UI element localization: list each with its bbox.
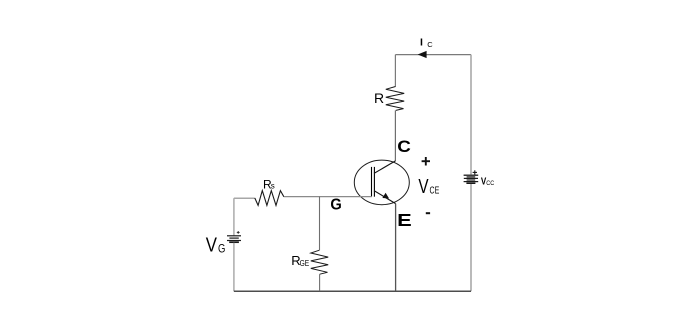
svg-text:I: I: [420, 37, 423, 49]
label + of VG: [237, 231, 240, 234]
transistor Q1 IGBT body circle: [354, 160, 409, 205]
svg-text:CE: CE: [430, 185, 440, 196]
svg-text:s: s: [271, 181, 275, 190]
svg-text:C: C: [427, 40, 433, 49]
wire collector lower: [394, 110, 396, 161]
svg-text:R: R: [374, 90, 384, 106]
label + of VCE: [422, 157, 430, 166]
svg-text:G: G: [330, 196, 341, 213]
wire top horizontal: [395, 54, 471, 56]
wire RGE branch lower: [319, 274, 321, 291]
wire left rail upper: [233, 198, 235, 235]
svg-text:G: G: [218, 244, 225, 256]
resistor R: [386, 87, 404, 111]
svg-text:V: V: [418, 176, 429, 198]
wire emitter vertical: [395, 204, 397, 292]
transistor Q1 emitter diagonal: [374, 191, 396, 204]
wire bottom rail: [234, 290, 471, 292]
transistor Q1 gate bar left: [371, 167, 373, 197]
wire gate left segment: [234, 197, 255, 199]
label - of VCE: [426, 212, 430, 214]
svg-text:CC: CC: [486, 180, 494, 187]
svg-text:GE: GE: [300, 259, 310, 268]
battery VG: [227, 236, 241, 242]
current arrow Ic: [418, 51, 427, 58]
wire right rail lower: [470, 184, 472, 291]
transistor Q1 emitter arrow: [382, 193, 389, 199]
label + of Vcc: [473, 170, 477, 174]
wire gate right segment: [284, 196, 372, 198]
svg-text:E: E: [397, 210, 412, 230]
wire right rail upper: [470, 55, 472, 175]
transistor Q1 gate bar right: [373, 167, 375, 197]
transistor Q1 collector diagonal: [374, 161, 395, 174]
resistor RGE: [311, 250, 328, 274]
resistor RS: [255, 191, 284, 206]
wire RGE branch upper: [319, 197, 321, 251]
svg-text:V: V: [206, 234, 218, 256]
battery Vcc: [464, 175, 479, 183]
wire left rail lower: [233, 243, 235, 291]
wire collector upper: [394, 55, 396, 87]
svg-text:C: C: [397, 138, 411, 156]
